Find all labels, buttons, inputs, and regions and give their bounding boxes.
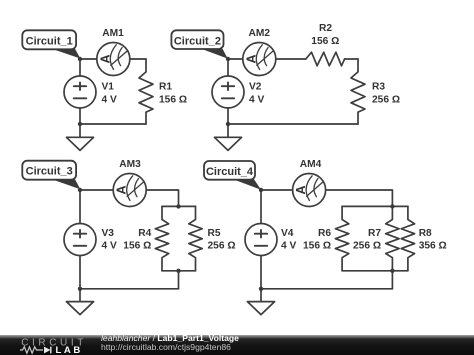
svg-text:4 V: 4 V [102, 95, 117, 106]
resistor R1 [139, 59, 153, 124]
node flag Circuit_2 [171, 30, 227, 58]
voltage source V3 [64, 224, 96, 256]
ground circuit 4 [247, 289, 274, 315]
svg-text:Circuit_4: Circuit_4 [206, 166, 254, 178]
wire parallel top rail circuit 3 [162, 205, 196, 207]
svg-text:156 Ω: 156 Ω [303, 241, 331, 252]
svg-text:AM2: AM2 [249, 28, 271, 39]
svg-text:AM3: AM3 [119, 159, 141, 170]
svg-text:R4: R4 [138, 228, 151, 239]
wire left branch circuit 1 [79, 59, 81, 124]
resistor R7 [386, 206, 399, 270]
wire top rail circuit 1 [80, 58, 146, 60]
svg-text:R6: R6 [318, 228, 331, 239]
resistor R2 [306, 52, 345, 66]
svg-text:AM1: AM1 [102, 28, 124, 39]
svg-text:4 V: 4 V [249, 95, 264, 106]
wire top rail circuit 4 [261, 190, 392, 206]
svg-text:V4: V4 [281, 228, 294, 239]
svg-text:256 Ω: 256 Ω [353, 241, 381, 252]
wire bottom rail circuit 4 [261, 288, 392, 290]
svg-text:256 Ω: 256 Ω [372, 95, 400, 106]
svg-text:R3: R3 [372, 82, 385, 93]
svg-text:4 V: 4 V [102, 241, 117, 252]
node dot circuit 2 top [226, 57, 230, 61]
wire top rail circuit 2 [228, 58, 306, 60]
wire parallel top rail circuit 4 [342, 205, 408, 207]
svg-text:AM4: AM4 [300, 159, 322, 170]
svg-text:A: A [294, 185, 308, 194]
node flag Circuit_3 [22, 161, 80, 190]
ground circuit 1 [66, 124, 93, 150]
resistor R5 [189, 206, 202, 270]
node dot circuit 4 top [259, 188, 263, 192]
svg-text:R7: R7 [368, 228, 381, 239]
voltage source V2 [212, 76, 244, 108]
ammeter AM2 [243, 43, 276, 76]
node dot circuit 3 rail bottom [176, 269, 180, 273]
wire stub circuit 3 [178, 271, 180, 289]
node dot circuit 1 top [78, 57, 82, 61]
svg-text:Circuit_3: Circuit_3 [26, 166, 73, 178]
svg-text:R8: R8 [419, 228, 432, 239]
wire left branch circuit 2 [227, 59, 229, 124]
svg-text:156 Ω: 156 Ω [123, 241, 151, 252]
svg-text:A: A [115, 185, 129, 194]
svg-text:156 Ω: 156 Ω [159, 95, 187, 106]
resistor R3 [351, 59, 365, 124]
ammeter AM4 [293, 174, 326, 207]
node flag Circuit_4 [204, 161, 261, 190]
resistor R6 [335, 206, 348, 270]
node dot circuit 1 bottom [78, 122, 82, 126]
ammeter AM3 [113, 174, 146, 207]
node dot circuit 4 bottom [259, 287, 263, 291]
node dot circuit 2 bottom [226, 122, 230, 126]
svg-text:V2: V2 [249, 82, 262, 93]
resistor R8 [401, 206, 414, 270]
logo diode [44, 347, 51, 354]
svg-text:V3: V3 [102, 228, 115, 239]
svg-text:4 V: 4 V [281, 241, 296, 252]
wire parallel bottom rail circuit 3 [162, 270, 196, 272]
ammeter AM1 [97, 43, 130, 76]
svg-text:356 Ω: 356 Ω [419, 241, 447, 252]
resistor R4 [155, 206, 168, 270]
node dot circuit 4 rail top [390, 204, 394, 208]
svg-text:Circuit_2: Circuit_2 [174, 35, 221, 47]
logo resistor zigzag [20, 347, 43, 353]
wire parallel bottom rail circuit 4 [342, 270, 408, 272]
wire bottom rail circuit 1 [80, 123, 146, 125]
svg-text:LAB: LAB [56, 345, 83, 355]
wire bottom rail circuit 2 [228, 123, 358, 125]
svg-text:Circuit_1: Circuit_1 [26, 35, 73, 47]
wire R2 to R3 corner [345, 58, 358, 60]
voltage source V1 [64, 76, 96, 108]
node dot circuit 3 rail top [176, 204, 180, 208]
svg-text:R2: R2 [319, 23, 332, 34]
wire left branch circuit 4 [260, 190, 262, 289]
svg-text:256 Ω: 256 Ω [208, 241, 236, 252]
wire stub circuit 4 [391, 271, 393, 289]
svg-text:R5: R5 [208, 228, 221, 239]
svg-text:R1: R1 [159, 82, 172, 93]
svg-text:V1: V1 [102, 82, 115, 93]
svg-text:156 Ω: 156 Ω [311, 36, 339, 47]
svg-text:http://circuitlab.com/ctjs9gp4: http://circuitlab.com/ctjs9gp4ten86 [101, 342, 231, 352]
node flag Circuit_1 [22, 30, 80, 58]
svg-text:A: A [244, 54, 258, 63]
ground circuit 2 [214, 124, 241, 150]
node dot circuit 3 top [78, 188, 82, 192]
node dot circuit 3 bottom [78, 287, 82, 291]
node dot circuit 4 rail bottom [390, 269, 394, 273]
voltage source V4 [245, 224, 277, 256]
ground circuit 3 [66, 289, 93, 315]
svg-text:A: A [98, 54, 112, 63]
wire bottom rail circuit 3 [80, 288, 179, 290]
wire left branch circuit 3 [79, 190, 81, 289]
wire top rail circuit 3 [80, 190, 179, 206]
